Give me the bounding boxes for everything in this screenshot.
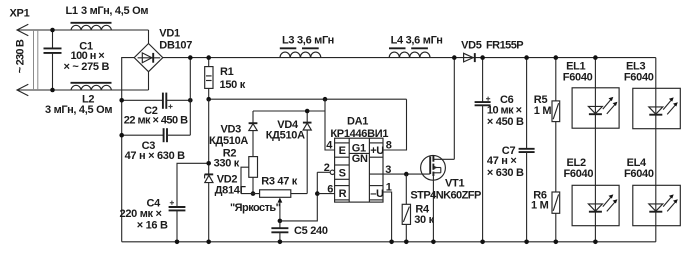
svg-text:× 630 В: × 630 В <box>487 167 524 179</box>
node AC input top arrow <box>17 24 28 35</box>
svg-text:30 к: 30 к <box>414 214 434 226</box>
junction C2 left on riser <box>119 98 124 103</box>
svg-text:DB107: DB107 <box>159 39 192 51</box>
wire regulator column <box>208 99 210 174</box>
svg-text:STP4NK60ZFP: STP4NK60ZFP <box>410 189 481 201</box>
junction timing node <box>315 191 320 196</box>
pin 2 number <box>324 162 330 174</box>
label R5 value <box>534 94 552 117</box>
svg-text:Д814Г: Д814Г <box>215 185 247 197</box>
svg-text:R1: R1 <box>220 66 234 78</box>
wire drain to rail <box>453 58 455 160</box>
diode bridge VD1 <box>134 44 163 72</box>
potentiometer R3 <box>260 190 308 221</box>
label C6 polarity plus <box>486 97 490 101</box>
inductor L1 <box>71 23 112 30</box>
capacitor C1 <box>44 30 62 90</box>
pin 6 number <box>327 183 333 195</box>
label EL4 type <box>624 157 654 180</box>
label DA1 cell -U <box>370 188 384 200</box>
resistor R5 <box>552 58 560 192</box>
label VD3 KD510A <box>209 123 248 147</box>
led module EL1 <box>572 58 619 129</box>
junction C1 top <box>50 28 55 33</box>
svg-text:2: 2 <box>324 162 330 174</box>
junction C4 branch on column <box>206 161 211 166</box>
svg-text:L1: L1 <box>66 5 78 17</box>
junction C6 top on rail <box>480 55 485 60</box>
junction DC+ rail at drop <box>188 55 193 60</box>
capacitor C4 <box>169 207 186 242</box>
junction R3 wiper node <box>278 219 283 224</box>
label DA1 cell S <box>339 168 346 180</box>
svg-text:XP1: XP1 <box>10 7 30 19</box>
svg-text:КР1446ВИ1: КР1446ВИ1 <box>330 128 388 140</box>
resistor R1 <box>205 58 213 100</box>
wire R2 to R3 left <box>241 193 260 195</box>
label C4 polarity plus <box>170 201 174 205</box>
svg-text:–U: –U <box>370 188 384 200</box>
capacitor C7 <box>519 58 535 242</box>
svg-text:1 М: 1 М <box>531 199 549 211</box>
svg-text:1 М: 1 М <box>534 105 552 117</box>
svg-text:VD5: VD5 <box>461 40 482 52</box>
svg-text:6: 6 <box>327 183 333 195</box>
wire DC+ drop to C2 C3 <box>189 58 191 136</box>
zener diode VD2 <box>205 174 214 241</box>
junction R4 bottom on common rail <box>404 240 409 245</box>
wire bridge left corner to DC- riser <box>122 58 135 242</box>
diode VD4 <box>303 111 312 194</box>
svg-text:47 н ×: 47 н × <box>487 155 517 167</box>
junction C7 bottom on common rail <box>524 240 529 245</box>
label DA1 cell G1 GN <box>352 143 368 165</box>
junction gate wire to R4 <box>404 172 409 177</box>
wire pin3 to gate <box>369 173 429 175</box>
label R4 value <box>414 204 434 226</box>
led module EL3 <box>633 58 681 129</box>
label ~230 V <box>15 39 27 73</box>
svg-text:3 мГн, 4,5 Ом: 3 мГн, 4,5 Ом <box>81 5 148 17</box>
op-amp timer DA1 body <box>335 138 383 202</box>
junction R6 bottom on common rail <box>554 240 559 245</box>
junction pin1 on common rail <box>389 240 394 245</box>
junction C6 bottom on common rail <box>480 240 485 245</box>
junction C5 bottom on common rail <box>278 240 283 245</box>
wire AC1 from XP1 to bridge <box>17 29 149 31</box>
svg-text:"Яркость": "Яркость" <box>230 202 281 214</box>
svg-text:330 к: 330 к <box>214 158 240 170</box>
label DA1 cell +U <box>370 145 384 157</box>
wire VD3 VD4 top bus <box>253 110 325 112</box>
svg-text:C5 240: C5 240 <box>294 225 328 237</box>
connector XP1 body lines <box>34 30 38 90</box>
junction R1 bottom supply node <box>206 97 211 102</box>
junction C2 right on DC+ drop <box>188 98 193 103</box>
label DA1 cell E <box>339 145 346 157</box>
junction supply bus to VD3 VD4 branch <box>323 97 328 102</box>
node AC input bottom arrow <box>17 84 28 95</box>
svg-text:VD3: VD3 <box>221 123 242 135</box>
pin 4 number <box>326 140 333 152</box>
pin 2 inversion circle <box>330 170 334 174</box>
resistor R2 trimmer <box>241 157 258 194</box>
inductor L2 <box>71 83 112 90</box>
junction R2 bottom <box>251 191 256 196</box>
svg-text:FR155P: FR155P <box>486 40 523 52</box>
wire pin8 to supply bus <box>383 99 407 150</box>
capacitor C6 <box>475 58 491 242</box>
svg-text:GN: GN <box>352 153 368 165</box>
label C3 value <box>125 140 186 162</box>
pin 8 number <box>386 139 392 151</box>
label EL1 type <box>563 61 593 84</box>
junction C3 left on riser <box>119 133 124 138</box>
svg-text:~ 230 В: ~ 230 В <box>15 39 27 73</box>
led module EL2 <box>572 128 619 242</box>
svg-text:150 к: 150 к <box>220 79 246 91</box>
junction EL1 top on rail <box>593 55 598 60</box>
label C5 value <box>294 225 328 237</box>
label R1 value <box>220 66 246 91</box>
label VD5 FR155P <box>461 40 523 52</box>
svg-text:+U: +U <box>370 145 384 157</box>
wire wiper to timing node <box>280 172 317 221</box>
label EL2 type <box>564 157 594 180</box>
pin 3 number <box>385 164 391 176</box>
resistor R6 <box>552 192 560 242</box>
svg-text:× 16 В: × 16 В <box>137 219 168 231</box>
svg-text:КД510А: КД510А <box>266 129 305 141</box>
wire pin2 lead <box>317 171 330 173</box>
label L3 value <box>282 34 334 46</box>
connector XP1 label <box>10 7 30 19</box>
wire bridge top lead <box>148 30 150 44</box>
svg-text:VT1: VT1 <box>445 178 464 190</box>
svg-text:R: R <box>339 188 347 200</box>
transistor VT1 <box>421 155 455 242</box>
svg-text:F6040: F6040 <box>624 71 654 83</box>
wire branch from supply bus to pin4 <box>325 99 335 150</box>
label VD2 D814G <box>215 174 247 197</box>
wire pin1 to common rail <box>383 192 392 242</box>
label C2 value <box>124 105 188 126</box>
inductor L3 <box>280 48 321 57</box>
wire bottom common rail <box>122 241 656 243</box>
capacitor C3 <box>122 128 191 142</box>
label R3 value <box>261 176 298 188</box>
label L1 value <box>66 5 149 17</box>
wire timing node to pin6 <box>317 193 334 195</box>
svg-text:DA1: DA1 <box>347 116 368 128</box>
svg-text:F6040: F6040 <box>624 168 654 180</box>
junction drain on rail <box>452 55 457 60</box>
svg-text:47 н × 630 В: 47 н × 630 В <box>125 150 186 162</box>
svg-text:× ~ 275 В: × ~ 275 В <box>64 61 110 73</box>
junction C1 bottom <box>50 88 55 93</box>
label DA1 type <box>330 116 388 141</box>
svg-text:R3 47 к: R3 47 к <box>261 176 298 188</box>
wire bridge bottom lead to AC2 <box>148 72 150 90</box>
diode VD3 <box>249 111 258 157</box>
capacitor C5 <box>271 221 288 242</box>
junction C7 top on rail <box>524 55 529 60</box>
pin 1 number <box>386 181 392 193</box>
junction R1 top on rail <box>206 55 211 60</box>
svg-text:S: S <box>339 168 346 180</box>
label VD4 KD510A <box>266 119 305 141</box>
svg-text:КД510А: КД510А <box>209 135 248 147</box>
diode VD5 <box>464 53 475 62</box>
resistor R4 <box>402 174 410 242</box>
svg-text:10 мк ×: 10 мк × <box>487 104 522 116</box>
svg-text:3 мГн, 4,5 Ом: 3 мГн, 4,5 Ом <box>45 104 112 116</box>
label VD1 DB107 <box>159 27 192 51</box>
svg-text:E: E <box>339 145 346 157</box>
inductor L4 <box>389 48 430 57</box>
svg-text:L3 3,6 мГн: L3 3,6 мГн <box>282 34 334 46</box>
svg-text:22 мк × 450 В: 22 мк × 450 В <box>124 115 188 127</box>
wire main DC+ rail <box>163 57 656 59</box>
wire low-voltage supply bus <box>209 98 407 100</box>
label EL3 type <box>624 61 654 84</box>
svg-text:× 450 В: × 450 В <box>487 116 524 128</box>
label VT1 type <box>410 178 481 202</box>
label R2 value <box>214 148 240 170</box>
label C7 value <box>487 145 524 179</box>
label R6 value <box>531 189 549 211</box>
wire AC2 from XP1 to riser <box>17 89 149 91</box>
svg-text:VD1: VD1 <box>159 27 180 39</box>
junction EL2 bottom on common rail <box>593 240 598 245</box>
svg-text:L4 3,6 мГн: L4 3,6 мГн <box>391 34 443 46</box>
label brightness <box>230 202 281 214</box>
junction VD2 bottom on common rail <box>206 240 211 245</box>
svg-text:F6040: F6040 <box>563 71 593 83</box>
wire C4 branch <box>177 163 209 207</box>
label C1 value <box>64 40 110 73</box>
junction VD4 on top bus <box>305 109 310 114</box>
label DA1 cell R <box>339 188 347 200</box>
label L4 value <box>391 34 443 46</box>
label C4 value <box>120 198 168 232</box>
label L2 value <box>45 93 112 116</box>
label C2 polarity plus <box>168 104 172 108</box>
capacitor C2 <box>122 93 191 109</box>
junction R5 top on rail <box>554 55 559 60</box>
junction C4 bottom on common rail <box>175 240 180 245</box>
svg-text:F6040: F6040 <box>564 168 594 180</box>
label C6 value <box>487 94 524 128</box>
junction source on common rail <box>431 240 436 245</box>
led module EL4 <box>633 129 681 242</box>
